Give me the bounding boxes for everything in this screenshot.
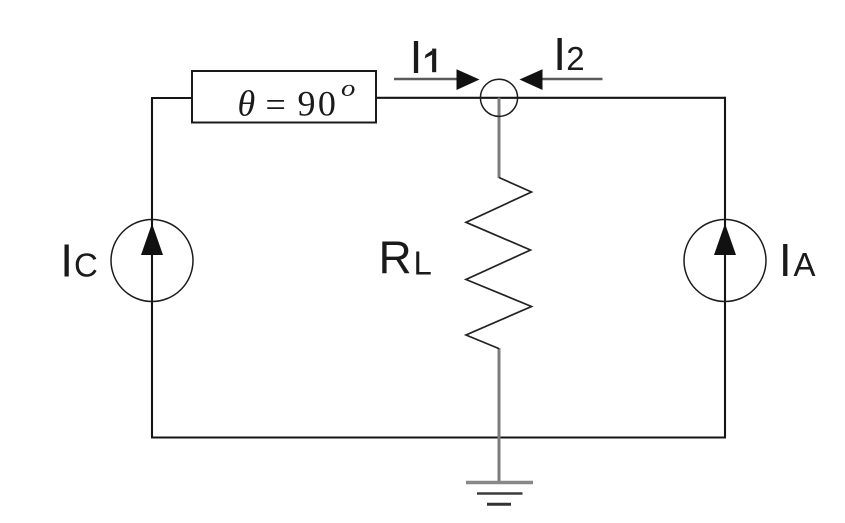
wire left horizontal to theta box [151,97,192,99]
ground bar 3 [487,503,511,506]
node stem gray from node to resistor [498,98,501,178]
svg-text:θ: θ [238,83,256,123]
svg-text:o: o [341,74,355,101]
box theta = 90 [192,71,376,123]
svg-text:C: C [74,246,98,283]
ground bar 1 [466,481,533,484]
ground stem gray from resistor to ground [498,348,501,482]
arrow I1 head [457,69,480,90]
svg-text:R: R [379,231,412,283]
arrow I2 line [542,78,603,81]
svg-text:=: = [266,84,286,124]
svg-text:A: A [794,246,816,283]
arrow I2 head [520,69,543,90]
current source IC arrow [141,224,163,256]
svg-text:90: 90 [298,83,339,123]
node circle [480,79,517,116]
svg-text:I: I [60,234,73,286]
current source IC circle [111,220,193,302]
svg-text:I: I [779,234,792,286]
wire bottom [151,436,726,438]
current source IA arrow [714,224,736,256]
current source IA circle [684,220,766,302]
wire left vertical [151,98,153,438]
svg-text:I: I [410,31,423,83]
resistor RL zigzag [466,178,532,349]
svg-text:2: 2 [566,40,584,77]
svg-text:L: L [414,244,432,281]
wire top from box to right corner [376,97,725,99]
wire right vertical [724,97,726,438]
svg-text:I: I [553,28,566,80]
ground bar 2 [477,492,523,495]
arrow I1 line [394,78,459,81]
